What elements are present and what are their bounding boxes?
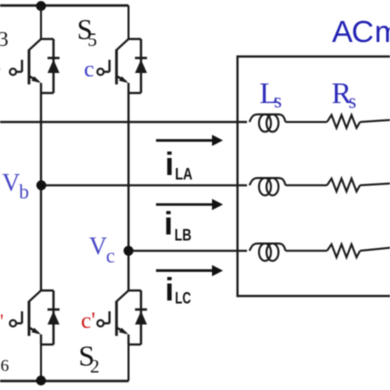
wire leg1 lower (S6 emitter to bottom rail) (40, 345, 42, 382)
resistor Rs phase B (327, 179, 360, 192)
node Vb junction dot (36, 180, 46, 190)
current arrow iLC (156, 265, 223, 276)
svg-text:6: 6 (1, 356, 10, 375)
resistor Rs phase C (327, 244, 360, 257)
label Rs (332, 77, 357, 113)
svg-text:c': c' (81, 308, 95, 333)
svg-text:c: c (106, 246, 115, 268)
svg-text:i: i (164, 206, 173, 242)
node Vc junction dot (124, 246, 134, 256)
label node Vb (2, 170, 29, 204)
wire bottom DC rail (0, 380, 129, 382)
wire phase C line (129, 250, 248, 252)
wire leg1 upper (S3 collector lead) (40, 6, 42, 40)
AC machine load box (238, 57, 390, 297)
svg-text:LB: LB (175, 226, 192, 245)
resistor Rs phase A (327, 115, 360, 128)
label Ls (260, 77, 283, 113)
node junction dot bottom rail (36, 376, 46, 386)
wire leg1 middle (S3 emitter down to S6 collector) (40, 93, 42, 291)
svg-text:b: b (19, 182, 29, 204)
svg-text:3: 3 (0, 27, 9, 51)
label S2 (79, 341, 100, 378)
wire leg2 upper (top rail corner to S5 collector) (128, 6, 130, 40)
label node Vc (89, 233, 115, 268)
label current iLB (164, 206, 192, 245)
svg-text:i: i (165, 146, 174, 182)
svg-text:5: 5 (88, 30, 98, 51)
inductor Ls phase A (250, 114, 286, 131)
wire phase B out (360, 184, 390, 186)
svg-text:LA: LA (175, 165, 193, 184)
wire phase B line (41, 184, 247, 186)
wire phase A coil to resistor (286, 121, 328, 123)
wire phase A line (0, 121, 247, 123)
svg-text:b': b' (0, 311, 4, 333)
svg-text:s: s (274, 91, 282, 113)
svg-text:m: m (375, 14, 390, 49)
inductor Ls phase C (250, 244, 286, 261)
wire leg2 lower (S2 emitter to bottom rail) (128, 345, 130, 382)
transistor S6 (IGBT with freewheeling diode) (10, 291, 60, 345)
transistor S5 (IGBT with freewheeling diode) (97, 39, 147, 93)
node junction dot top rail (36, 1, 46, 11)
wire top DC rail (0, 4, 129, 7)
svg-text:2: 2 (90, 357, 100, 378)
wire phase C out (360, 248, 390, 251)
current arrow iLA (156, 135, 223, 146)
svg-text:i: i (165, 272, 174, 308)
label current iLC (165, 272, 191, 308)
wire phase B coil to resistor (286, 184, 328, 186)
label AC machine (332, 14, 390, 49)
svg-text:AC: AC (332, 14, 373, 49)
svg-text:V: V (89, 233, 107, 260)
wire phase C coil to resistor (286, 250, 328, 252)
svg-text:V: V (2, 170, 20, 197)
label current iLA (165, 146, 193, 184)
current arrow iLB (156, 199, 223, 210)
svg-text:b: b (0, 58, 1, 80)
transistor S3 (IGBT with freewheeling diode) (10, 39, 60, 93)
inductor Ls phase B (250, 178, 286, 195)
svg-text:s: s (349, 91, 357, 113)
wire phase A out (360, 120, 390, 122)
label S5 (77, 15, 97, 51)
svg-text:c: c (84, 57, 94, 82)
transistor S2 (IGBT with freewheeling diode) (97, 291, 147, 345)
wire leg2 middle (S5 emitter down to S2 collector) (127, 93, 129, 291)
svg-text:LC: LC (175, 289, 191, 308)
